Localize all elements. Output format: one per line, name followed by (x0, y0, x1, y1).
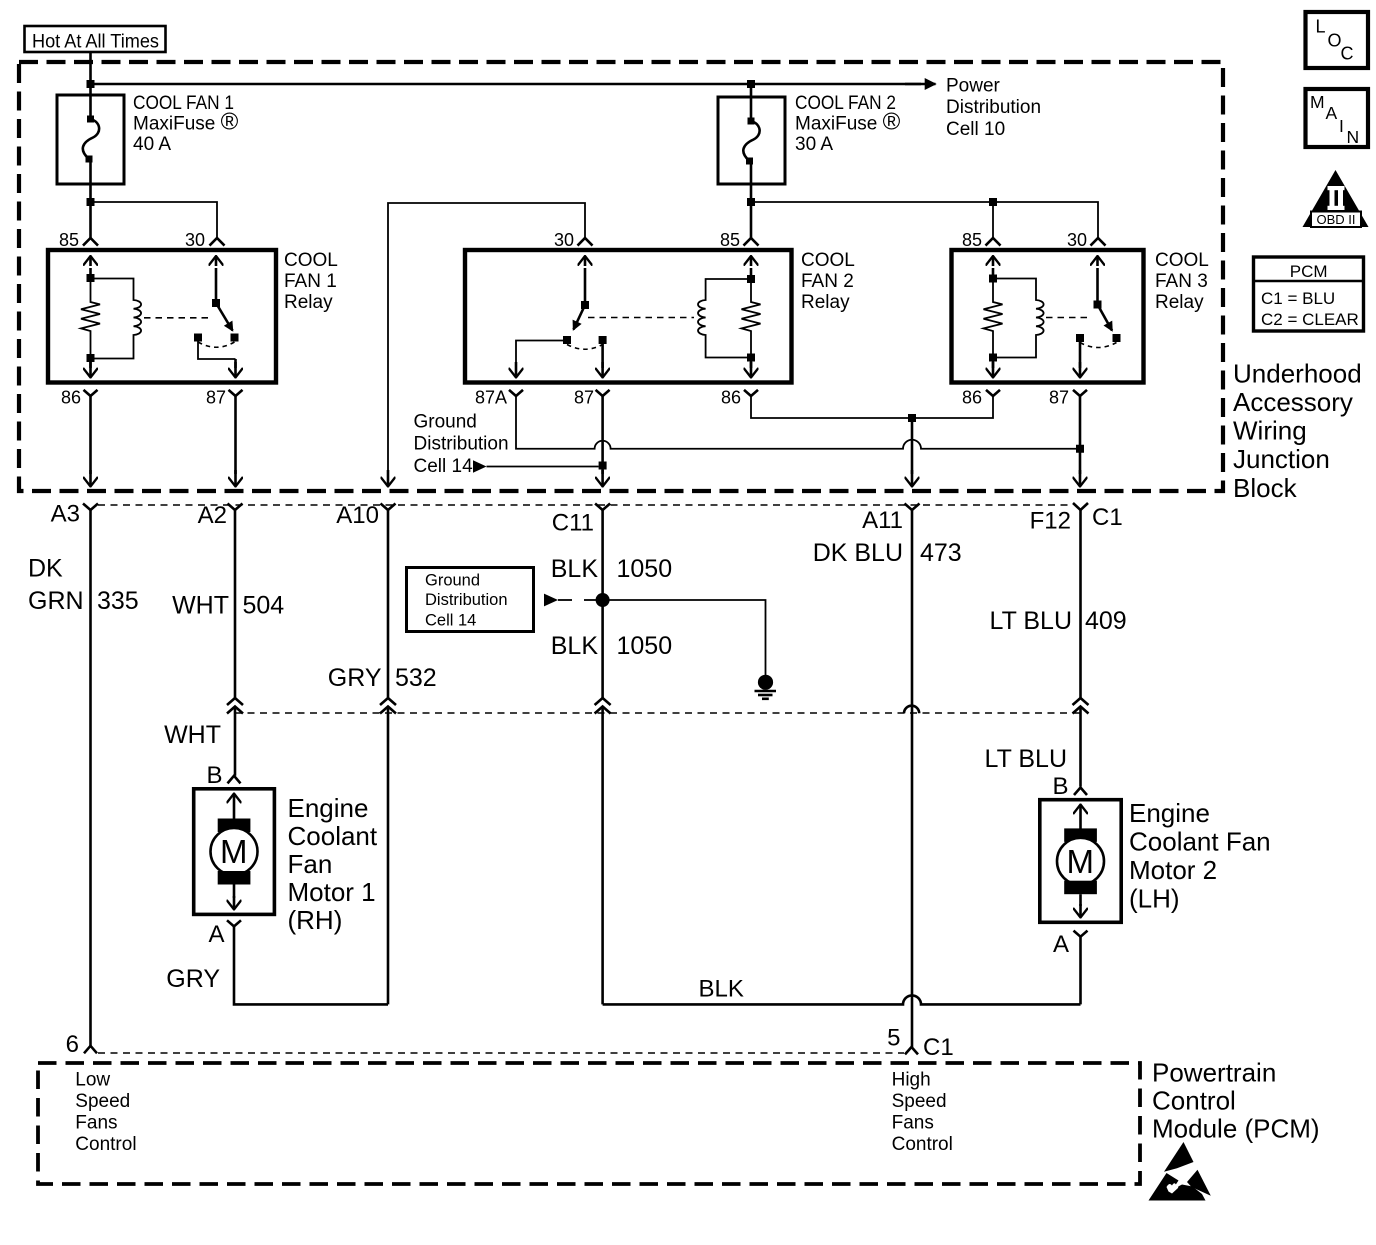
svg-text:Powertrain: Powertrain (1152, 1057, 1276, 1087)
svg-text:6: 6 (66, 1031, 79, 1058)
svg-text:85: 85 (962, 230, 982, 250)
wire relay3 pin87 internal (1079, 342, 1082, 368)
svg-text:C1 = BLU: C1 = BLU (1261, 289, 1335, 308)
svg-text:BLK: BLK (551, 632, 599, 660)
harness inline connector dashed line (235, 712, 1080, 714)
svg-text:5: 5 (887, 1025, 900, 1052)
svg-text:Underhood: Underhood (1233, 358, 1362, 388)
connector C11 (552, 504, 610, 537)
node 87A joins relay3-87 (1076, 445, 1084, 453)
label High Speed Fans Control (892, 1070, 953, 1156)
relay3 coil branch pin85 (989, 256, 997, 362)
wire to ground (603, 600, 766, 676)
svg-text:Hot At All Times: Hot At All Times (32, 32, 159, 53)
connector F12 C1 (1030, 503, 1123, 535)
switch relay1 (194, 256, 239, 347)
wire relay3 pin86 internal (992, 358, 995, 369)
svg-text:MaxiFuse ®: MaxiFuse ® (133, 109, 239, 136)
svg-text:473: 473 (920, 539, 962, 567)
svg-text:BLK: BLK (551, 555, 599, 583)
svg-text:Distribution: Distribution (425, 591, 508, 609)
svg-text:F12: F12 (1030, 508, 1071, 535)
svg-text:(RH): (RH) (288, 905, 343, 935)
svg-text:L: L (1316, 17, 1326, 37)
svg-text:B: B (206, 762, 222, 789)
svg-text:High: High (892, 1070, 931, 1091)
svg-text:86: 86 (721, 388, 741, 408)
relay K1 COOL FAN 1 Relay (48, 250, 276, 383)
pin 87 connector relay2 (574, 388, 610, 408)
svg-text:Cell 14: Cell 14 (414, 456, 474, 477)
inline connector A2 wire double chevron (227, 698, 243, 714)
wire relay3-87 to F12 (1079, 396, 1082, 474)
inductor relay1 coil (91, 279, 142, 359)
relay K3 COOL FAN 3 Relay (952, 250, 1144, 383)
wire arrow into Power Distribution Cell 10 (905, 83, 936, 86)
svg-text:LT BLU: LT BLU (985, 745, 1067, 773)
label DK BLU 473 (813, 539, 962, 567)
resistor relay3 coil suppression (984, 279, 1003, 358)
node BLK ground junction (596, 593, 610, 607)
svg-text:532: 532 (395, 664, 437, 692)
wire A11 DK BLU 473 to PCM pin 5 (911, 510, 914, 1047)
label BLK 1050 upper (551, 555, 672, 583)
legend PCM connectors (1254, 257, 1364, 331)
wire fuse1 to relay1 pin85 (89, 202, 92, 238)
wire relay2 pin87 internal (601, 344, 604, 368)
relay K2 COOL FAN 2 Relay (465, 250, 792, 383)
svg-text:FAN 2: FAN 2 (801, 271, 854, 292)
wire A10 GRY 532 down (387, 510, 390, 699)
resistor relay2 coil suppression (742, 279, 761, 358)
label fuse F2 (795, 93, 901, 155)
svg-text:PCM: PCM (1290, 262, 1328, 281)
Powertrain Control Module dashed border (38, 1063, 1140, 1184)
wire branch fuse1 to relay1 pin30 (91, 202, 218, 238)
svg-text:Wiring: Wiring (1233, 416, 1307, 446)
label Powertrain Control Module (PCM) (1152, 1057, 1320, 1143)
svg-text:A: A (1053, 931, 1069, 958)
pin 86 connector relay1 (61, 388, 98, 408)
node fuse2 output junction (747, 198, 755, 206)
wire branch fuse2 to relay3 (751, 202, 1098, 238)
svg-text:87A: 87A (475, 388, 507, 408)
wire relay1 pin86 internal (89, 358, 92, 368)
label Low Speed Fans Control (75, 1070, 136, 1156)
svg-text:409: 409 (1085, 607, 1127, 635)
svg-text:COOL FAN 2: COOL FAN 2 (795, 93, 896, 114)
svg-text:A3: A3 (51, 501, 80, 528)
svg-text:335: 335 (97, 587, 139, 615)
fuse F2 COOL FAN 2 MaxiFuse 30 A (718, 84, 785, 202)
svg-text:I: I (1339, 116, 1344, 136)
svg-text:Engine: Engine (288, 793, 369, 823)
svg-text:87: 87 (574, 388, 594, 408)
Underhood Accessory Wiring Junction Block dashed border (19, 62, 1223, 491)
svg-text:FAN 3: FAN 3 (1155, 271, 1208, 292)
svg-text:504: 504 (243, 592, 285, 620)
pin 85 connector relay3 (962, 230, 1001, 250)
node branch to relay3 pin85 (989, 198, 997, 206)
svg-text:Coolant Fan: Coolant Fan (1129, 827, 1271, 857)
svg-text:Cell 10: Cell 10 (946, 119, 1005, 140)
wire F12 LT BLU 409 to motor2 B (1079, 510, 1082, 699)
svg-text:1050: 1050 (617, 555, 673, 583)
svg-text:Junction: Junction (1233, 444, 1330, 474)
label DK GRN 335 (28, 555, 139, 616)
svg-text:Fans: Fans (75, 1113, 117, 1134)
svg-text:COOL: COOL (284, 250, 338, 271)
svg-text:30: 30 (554, 230, 574, 250)
svg-text:FAN 1: FAN 1 (284, 271, 337, 292)
pin 85 connector relay2 (720, 230, 759, 250)
svg-text:40 A: 40 A (133, 134, 171, 155)
inline connector A10 wire double chevron (380, 698, 396, 714)
label WHT 504 (172, 592, 284, 620)
pin 86 connector relay2 (721, 388, 758, 408)
connector A10 (336, 502, 395, 529)
svg-text:Relay: Relay (801, 292, 850, 313)
svg-text:30: 30 (185, 230, 205, 250)
svg-text:COOL: COOL (1155, 250, 1209, 271)
svg-text:Motor 1: Motor 1 (288, 877, 376, 907)
wire C11 BLK 1050 down (601, 510, 604, 699)
svg-text:DK: DK (28, 555, 63, 583)
wire arrow ground distribution to C11 wire (473, 460, 599, 473)
relay1 coil branch pin85 (87, 256, 95, 362)
svg-text:Speed: Speed (75, 1091, 130, 1112)
pin 87 connector relay1 (206, 388, 243, 408)
svg-text:M: M (1067, 843, 1095, 880)
wire arrow ground distribution into BLK junction (544, 594, 598, 607)
svg-text:WHT: WHT (172, 592, 229, 620)
label Power Distribution Cell 10 (946, 76, 1041, 141)
svg-text:30 A: 30 A (795, 134, 833, 155)
svg-text:C1: C1 (923, 1034, 954, 1061)
pin 87A connector relay2 (475, 388, 523, 408)
ESD sensitive device symbol (1149, 1142, 1211, 1201)
wire BLK bus C11 to motor2 with hop over A11 (603, 995, 1081, 1004)
pin 87 connector relay3 (1049, 388, 1087, 408)
fuse F1 COOL FAN 1 MaxiFuse 40 A (57, 95, 124, 202)
wire motor1 A to GRY wire (234, 926, 388, 1004)
svg-text:A: A (1326, 103, 1338, 123)
svg-text:GRY: GRY (166, 965, 220, 993)
node A11 tap on 86 bus (908, 414, 916, 422)
svg-text:Distribution: Distribution (946, 97, 1041, 118)
box Ground Distribution Cell 14 (407, 568, 534, 632)
svg-text:87: 87 (206, 388, 226, 408)
node battery feed junction (87, 80, 95, 88)
svg-text:Relay: Relay (284, 292, 333, 313)
motor M1 Engine Coolant Fan Motor 1 (RH) (194, 762, 275, 948)
wire relay2-86 to relay3-86 bus (751, 396, 993, 418)
relay2 coil branch pin85 (747, 256, 755, 362)
svg-text:1050: 1050 (617, 632, 673, 660)
wire A11 drop (911, 418, 914, 474)
motor M2 Engine Coolant Fan Motor 2 (LH) (1040, 773, 1121, 958)
svg-text:DK BLU: DK BLU (813, 539, 903, 567)
node fuse2 top junction (747, 80, 755, 88)
PCM pin 6 connector (66, 1031, 97, 1058)
wire relay2 pin87A internal (516, 341, 567, 369)
svg-text:Fan: Fan (288, 849, 333, 879)
svg-text:Low: Low (75, 1070, 110, 1091)
symbol LOC (1306, 12, 1369, 68)
svg-text:Relay: Relay (1155, 292, 1204, 313)
node fuse1 output junction (87, 198, 95, 206)
svg-text:LT BLU: LT BLU (990, 607, 1072, 635)
inline connector C1 wire double chevron (1073, 698, 1089, 714)
pin 86 connector relay3 (962, 388, 1000, 408)
pin 30 connector relay2 (554, 230, 593, 250)
label LT BLU 409 (990, 607, 1127, 635)
connector A2 (198, 502, 243, 529)
switch relay3 (1076, 256, 1121, 348)
label GRY 532 (328, 664, 437, 692)
inline connector A11 wire arc (904, 706, 919, 714)
ground G100 (755, 675, 777, 699)
svg-text:M: M (220, 833, 248, 870)
label motor M1 (288, 793, 378, 935)
svg-text:Power: Power (946, 76, 1001, 97)
relay1 actuation dashed link (144, 317, 212, 319)
inductor relay3 coil (993, 279, 1044, 358)
wire relay2-87A bus to relay3-87 with hops (516, 396, 1080, 449)
svg-text:Control: Control (892, 1134, 953, 1155)
svg-text:Control: Control (1152, 1086, 1236, 1116)
wire A3 DK GRN 335 to PCM pin 6 (89, 510, 92, 1046)
symbol MAIN (1306, 89, 1369, 147)
svg-text:Block: Block (1233, 473, 1298, 503)
symbol OBD II (1303, 170, 1369, 227)
svg-text:Fans: Fans (892, 1113, 934, 1134)
label relay K2 (801, 250, 855, 313)
svg-text:GRN: GRN (28, 587, 84, 615)
pin 85 connector relay1 (59, 230, 98, 250)
svg-text:N: N (1347, 127, 1360, 147)
svg-text:Ground: Ground (425, 572, 480, 590)
wire relay2 pin86 internal (750, 358, 753, 369)
node ground distribution tap (599, 462, 607, 470)
svg-text:30: 30 (1067, 230, 1087, 250)
inline connector C11 wire double chevron (595, 698, 611, 714)
svg-text:Coolant: Coolant (288, 821, 378, 851)
svg-text:86: 86 (61, 388, 81, 408)
pin 30 connector relay1 (185, 230, 225, 250)
svg-text:A10: A10 (336, 502, 379, 529)
PCM pin 5 connector C1 (887, 1025, 954, 1062)
wire relay2-87 to C11 (601, 396, 604, 474)
wire relay1-87 to A2 (234, 396, 237, 474)
label relay K3 (1155, 250, 1209, 313)
connector A3 (51, 501, 98, 528)
wire A10 feed to relay2 pin30 (388, 203, 585, 474)
wire top power bus to Power Distribution (91, 83, 922, 86)
svg-text:Distribution: Distribution (414, 434, 509, 455)
svg-text:Control: Control (75, 1134, 136, 1155)
svg-text:OBD II: OBD II (1316, 212, 1355, 227)
label motor M2 (1129, 798, 1271, 914)
svg-text:C: C (1341, 44, 1354, 64)
svg-text:O: O (1328, 31, 1342, 51)
svg-text:MaxiFuse ®: MaxiFuse ® (795, 109, 901, 136)
wire battery feed vertical from Hot At All Times (89, 52, 92, 95)
svg-text:GRY: GRY (328, 664, 382, 692)
svg-text:M: M (1310, 92, 1325, 112)
wire drop to relay3 pin85 (992, 202, 994, 238)
wire relay1 pin87 internal (198, 341, 236, 359)
connector A11 (862, 504, 919, 535)
PCM connector face dashed line (98, 1052, 904, 1054)
svg-text:Accessory: Accessory (1233, 387, 1353, 417)
label relay K1 (284, 250, 338, 313)
label fuse F1 (133, 93, 239, 155)
wire motor2 A to BLK bus (1079, 937, 1082, 1005)
svg-text:Module (PCM): Module (PCM) (1152, 1114, 1320, 1144)
svg-text:87: 87 (1049, 388, 1069, 408)
relay2 actuation dashed link (588, 317, 694, 319)
wire relay1-86 to A3 (89, 396, 92, 474)
svg-text:A2: A2 (198, 502, 227, 529)
label BLK 1050 lower (551, 632, 672, 660)
svg-text:85: 85 (59, 230, 79, 250)
junction block connector face dashed line (98, 504, 1071, 506)
svg-text:85: 85 (720, 230, 740, 250)
label Ground Distribution Cell 14 upper (414, 412, 509, 477)
svg-text:BLK: BLK (699, 976, 744, 1003)
svg-text:Cell 14: Cell 14 (425, 612, 476, 630)
label Underhood Accessory Wiring Junction Block (1233, 358, 1362, 502)
svg-text:Motor 2: Motor 2 (1129, 855, 1217, 885)
svg-text:A: A (208, 921, 224, 948)
svg-text:Speed: Speed (892, 1091, 947, 1112)
svg-text:C2 = CLEAR: C2 = CLEAR (1261, 310, 1359, 329)
pin 30 connector relay3 (1067, 230, 1106, 250)
label Hot At All Times (25, 26, 166, 53)
svg-text:B: B (1052, 773, 1068, 800)
svg-text:C11: C11 (552, 510, 594, 537)
svg-text:Engine: Engine (1129, 798, 1210, 828)
svg-text:Ground: Ground (414, 412, 477, 433)
svg-text:86: 86 (962, 388, 982, 408)
svg-text:A11: A11 (862, 507, 903, 534)
relay3 actuation dashed link (1046, 317, 1092, 319)
svg-text:COOL: COOL (801, 250, 855, 271)
svg-text:(LH): (LH) (1129, 884, 1180, 914)
wire fuse2 to relay2 pin85 (750, 202, 753, 238)
resistor relay1 coil suppression (81, 278, 100, 358)
wire A2 WHT 504 to motor1 B (234, 510, 237, 699)
svg-text:WHT: WHT (164, 721, 221, 749)
switch relay2 (563, 256, 607, 349)
inductor relay2 coil (698, 279, 751, 358)
svg-text:C1: C1 (1092, 504, 1123, 531)
svg-text:COOL FAN 1: COOL FAN 1 (133, 93, 234, 114)
